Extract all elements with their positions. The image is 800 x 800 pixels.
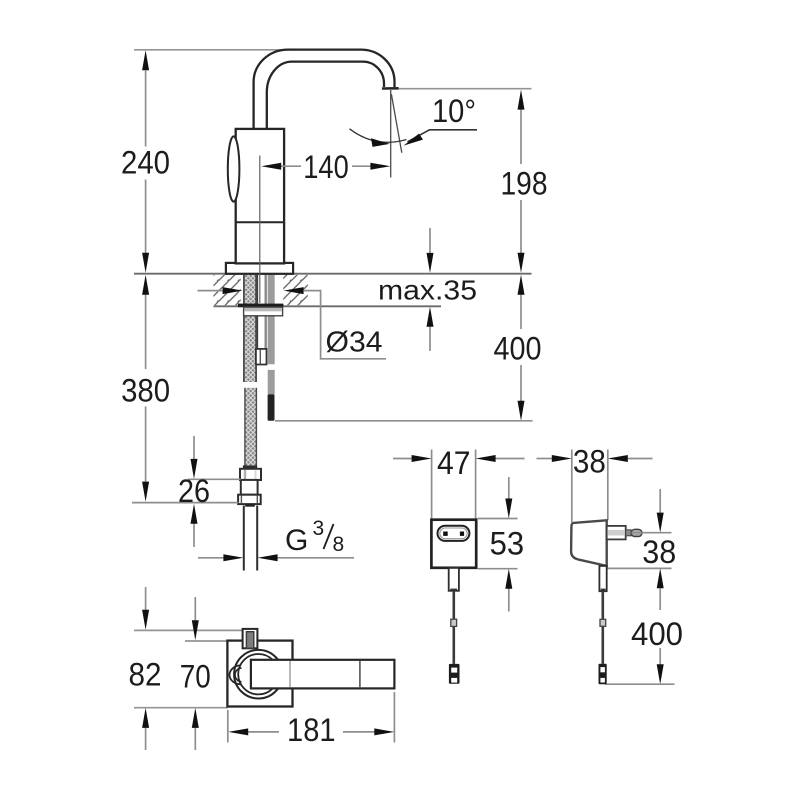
- dimension 38 right: [659, 489, 661, 513]
- dimension 198 line: [520, 110, 522, 165]
- dimension 380 line: [145, 295, 147, 370]
- svg-text:10°: 10°: [432, 93, 476, 129]
- extension line top (240 reference, spout top level): [134, 49, 291, 51]
- svg-text:140: 140: [303, 149, 349, 185]
- reference line 82 top: [134, 629, 258, 631]
- dimension max.35 arrows: [429, 228, 431, 253]
- svg-text:47: 47: [437, 445, 471, 481]
- countertop bottom line: [214, 305, 442, 307]
- svg-text:53: 53: [490, 526, 525, 562]
- svg-text:8: 8: [333, 533, 345, 556]
- spout arm (top view): [251, 660, 395, 689]
- svg-text:380: 380: [121, 373, 170, 409]
- dimension 400 line (cable length): [520, 295, 522, 330]
- strain relief: [449, 568, 459, 591]
- 10 degree arc arrow: [350, 129, 407, 143]
- rigid supply pipe: [257, 275, 267, 349]
- spout outer contour: [254, 50, 395, 129]
- svg-text:82: 82: [129, 657, 162, 693]
- electric cable from faucet: [268, 275, 275, 364]
- cable end connector: [599, 664, 607, 684]
- spout inner contour: [267, 62, 384, 129]
- mounting nut body: [244, 307, 283, 316]
- dimension 53: [478, 518, 518, 520]
- cable ferrule: [600, 619, 606, 626]
- reference line at hose fitting bottom: [132, 502, 238, 504]
- svg-text:G: G: [285, 524, 308, 557]
- reference line unit bottom: [599, 567, 672, 569]
- mounting nut dark band: [238, 304, 284, 308]
- svg-text:70: 70: [180, 659, 211, 695]
- faucet base plate: [226, 263, 293, 274]
- body circle inner: [238, 654, 278, 694]
- dimension 47: [431, 450, 433, 520]
- dimension 181: [227, 710, 229, 743]
- 10 degree slant line: [391, 94, 401, 153]
- reference line cable end: [605, 683, 675, 685]
- dimension G3/8: [198, 557, 224, 559]
- svg-text:181: 181: [287, 712, 336, 748]
- svg-text:26: 26: [178, 473, 210, 509]
- riser tube (top view): [243, 629, 258, 648]
- control box body: [431, 520, 476, 568]
- svg-text:3: 3: [313, 517, 325, 540]
- sensor window arcs (top view): [230, 665, 242, 684]
- spout mouth (aerator face): [382, 87, 399, 90]
- dimension 240 line: [145, 71, 147, 147]
- cable end connector: [449, 664, 460, 684]
- socket pins: [443, 532, 448, 536]
- countertop top line: [134, 273, 532, 275]
- reference line pin level: [631, 532, 671, 534]
- socket oval: [438, 526, 470, 541]
- reference line 70 top: [185, 640, 228, 642]
- threaded shank rod (knurled): [244, 275, 256, 382]
- dimension 140: [281, 165, 301, 167]
- svg-text:240: 240: [121, 145, 170, 181]
- dimension 70: [194, 597, 196, 620]
- sensor window (side): [228, 136, 240, 201]
- hose fitting lower hex (G3/8 nut): [238, 495, 261, 504]
- dimension 38 top: [571, 450, 573, 523]
- dimension 400 right: [659, 588, 661, 610]
- svg-text:38: 38: [573, 444, 606, 480]
- reference line at cable end: [275, 420, 533, 422]
- svg-text:max.35: max.35: [378, 275, 477, 306]
- flexible braided hose: [245, 388, 257, 470]
- cable ferrule: [451, 619, 457, 626]
- svg-text:Ø34: Ø34: [326, 327, 383, 359]
- countertop hatch right: [283, 275, 308, 305]
- body division line: [236, 221, 284, 223]
- body circle outer: [234, 650, 283, 699]
- reference line bottom (square base): [134, 707, 228, 709]
- G3/8 connection pipe: [243, 506, 245, 571]
- extension line (198 reference, spout outlet level): [397, 88, 532, 90]
- water stream vertical reference: [390, 90, 392, 178]
- hose end ferrule: [243, 465, 257, 468]
- base square plate: [227, 641, 292, 707]
- svg-text:400: 400: [631, 616, 683, 652]
- cable: [452, 591, 455, 619]
- strain relief: [599, 566, 606, 591]
- countertop hatch left: [214, 275, 241, 305]
- fitting dark shoulder: [245, 504, 255, 507]
- 10 degree leader: [408, 130, 478, 142]
- faucet body: [236, 129, 284, 264]
- svg-text:400: 400: [494, 331, 542, 367]
- hose fitting upper hex: [240, 469, 261, 480]
- hose fitting middle: [241, 480, 258, 495]
- dimension 26: [188, 478, 241, 480]
- plug pin: [626, 530, 632, 536]
- cable: [601, 591, 604, 619]
- power unit body: [571, 520, 607, 566]
- svg-text:38: 38: [642, 534, 676, 570]
- plug prong base: [607, 526, 626, 540]
- pipe end connector: [256, 349, 267, 365]
- cable plug connector: [268, 394, 275, 421]
- svg-text:198: 198: [501, 166, 548, 202]
- dimension Ø34 leader: [198, 290, 223, 292]
- centerline: [259, 156, 261, 304]
- dimension 82: [145, 587, 147, 610]
